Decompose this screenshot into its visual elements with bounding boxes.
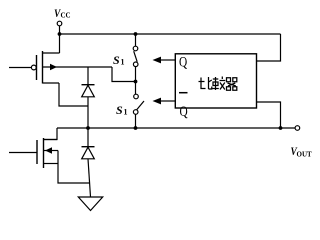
- junction dot switch branch: [134, 32, 138, 36]
- arrow comparator Q to upper switch: [153, 57, 176, 64]
- wire upper diode column bottom: [87, 97, 89, 128]
- wire upper diode column top: [87, 67, 89, 84]
- wire PMOS bottom lead down and right: [59, 83, 88, 106]
- wire PMOS source lead to switch drop: [60, 66, 113, 68]
- diode D2: [82, 147, 95, 159]
- svg-text:S: S: [113, 53, 120, 67]
- svg-text:Q: Q: [180, 104, 188, 120]
- diode D1: [82, 85, 95, 97]
- node Vout label: [291, 144, 313, 159]
- wire source drop to switch node: [112, 67, 136, 82]
- wire top rail: [60, 33, 281, 35]
- ground: [78, 197, 102, 211]
- wire rail right drop to comparator top: [257, 34, 281, 61]
- switch S1 lower: [133, 82, 144, 129]
- wire NMOS body to source: [57, 151, 59, 164]
- arrow comparator Qbar to lower switch: [153, 98, 176, 105]
- junction dot Vcc rail: [58, 32, 62, 36]
- terminal Vout: [295, 126, 300, 131]
- label S1 lower: [116, 103, 128, 117]
- svg-text:S: S: [116, 103, 123, 117]
- wire lower diode column top: [87, 128, 89, 146]
- wire comparator bottom right to output: [257, 102, 281, 128]
- junction dot comparator output: [279, 126, 283, 130]
- wire NMOS drain to output rail: [44, 128, 58, 140]
- transistor Q1 PMOS: [9, 51, 60, 84]
- junction dot diode column output: [86, 126, 90, 130]
- svg-text:Q: Q: [179, 54, 187, 70]
- svg-text:1: 1: [121, 58, 125, 67]
- label S1 upper: [113, 53, 125, 67]
- wire NMOS source to ground run: [58, 164, 90, 184]
- junction dot switch mid node: [134, 80, 138, 84]
- terminal Vcc: [57, 21, 62, 26]
- node Vcc label: [54, 6, 71, 20]
- wire Vcc stem: [59, 26, 61, 34]
- label Qbar output: [179, 93, 188, 120]
- wire lower diode to ground: [88, 159, 91, 197]
- transistor Q2 NMOS: [9, 138, 58, 168]
- switch S1 upper: [133, 34, 138, 82]
- svg-text:OUT: OUT: [297, 151, 313, 159]
- junction dot lower switch output: [134, 126, 138, 130]
- wire output rail: [57, 127, 295, 129]
- svg-text:1: 1: [124, 108, 128, 117]
- wire PMOS drain to rail: [59, 34, 61, 53]
- label comparator text (比较器 drawn strokes): [199, 77, 237, 91]
- svg-text:CC: CC: [61, 11, 71, 19]
- op-amp U1 comparator box: [175, 54, 256, 108]
